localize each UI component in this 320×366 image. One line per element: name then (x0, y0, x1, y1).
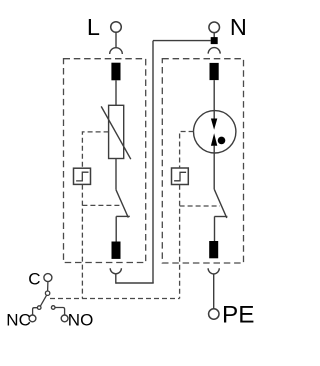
pivot circle (45, 291, 49, 295)
plug-in disconnect arc (L branch, bottom) (110, 268, 121, 274)
dashed mechanical signal line to remote contact (50, 298, 180, 300)
wire GDT to switch (213, 146, 215, 190)
right module dashed box (162, 59, 243, 263)
wire to PE terminal (213, 274, 215, 309)
node N junction dot (211, 37, 218, 44)
GDT upper electrode arrow (211, 119, 217, 130)
thermal disconnect switch blade (L branch) (116, 190, 128, 218)
terminal N circle (209, 22, 220, 33)
thermal sensor step glyph (L) (76, 172, 88, 181)
dashed link N: GDT to sensor (180, 132, 194, 169)
NO contact circle (51, 306, 55, 310)
wire switch to bottom block (L branch) (115, 216, 117, 241)
fuse/disconnector element (L branch, top black block) (111, 63, 120, 81)
plug-in disconnect arc (N branch, bottom) (208, 268, 219, 274)
left module dashed box (64, 59, 146, 263)
dashed link N: to switch blade (180, 205, 220, 207)
NO elbow (55, 308, 64, 315)
NC elbow (33, 308, 38, 315)
wire bottom of MOV branch to N run (116, 282, 154, 284)
dashed link N: sensor down to signal line (179, 185, 181, 299)
svg-text:NC: NC (6, 311, 31, 330)
svg-text:PE: PE (222, 301, 254, 328)
svg-text:L: L (87, 14, 100, 40)
switch lower contact tick (L branch) (116, 215, 130, 217)
wire C to pivot (47, 282, 49, 291)
thermal sensor step glyph (N) (174, 172, 186, 181)
GDT gas-filled dot (218, 137, 226, 145)
varistor RV body (109, 105, 124, 158)
svg-text:NO: NO (68, 311, 94, 330)
wire switch to bottom block (N branch) (214, 217, 216, 242)
terminal L circle (111, 22, 122, 33)
dashed link L: to switch blade (82, 204, 121, 206)
plug-in disconnect arc (L, top) (110, 48, 123, 54)
wire varistor to switch (115, 159, 117, 190)
bottom terminal block (N branch) (209, 241, 218, 258)
wire vertical N run down between modules (152, 41, 154, 283)
dashed link L: varistor to sensor (82, 132, 108, 168)
NC contact circle (37, 306, 41, 310)
wire N terminal to junction (213, 33, 215, 38)
wire L terminal to plug arc (115, 32, 117, 48)
dashed link L: sensor down to signal line (81, 185, 83, 299)
fuse/disconnector element (N branch, top black block) (210, 63, 219, 80)
terminal C circle (44, 274, 52, 282)
thermal disconnect switch blade (N branch) (214, 189, 227, 218)
GDT lower electrode arrow (211, 133, 217, 146)
thermal sensor square (N branch) (172, 168, 189, 185)
svg-text:C: C (28, 270, 40, 289)
switch lower contact tick (N branch) (214, 216, 227, 218)
wire block to varistor (115, 80, 117, 105)
wire block to GDT (213, 80, 215, 119)
NC terminal circle (29, 315, 36, 322)
NO terminal circle (61, 315, 68, 322)
svg-text:N: N (230, 14, 247, 40)
wire from left bottom arc down (115, 274, 117, 284)
thermal sensor square (L branch) (74, 168, 91, 184)
bottom terminal block (L branch) (112, 242, 121, 259)
changeover blade (40, 295, 46, 306)
varistor diagonal stroke (101, 106, 131, 159)
wire from N junction left (153, 40, 211, 42)
plug-in disconnect arc (N, top) (208, 48, 220, 54)
gas discharge tube circle (194, 111, 236, 153)
terminal PE circle (209, 309, 219, 319)
